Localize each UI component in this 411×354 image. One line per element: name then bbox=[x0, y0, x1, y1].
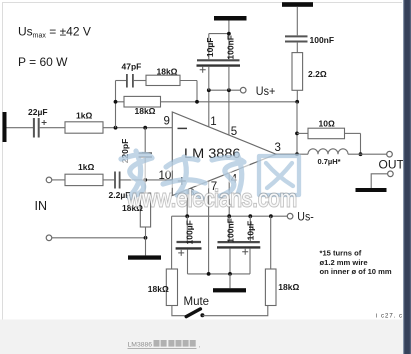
capacitor 100nF V+ lead bbox=[228, 21, 230, 60]
svg-text:1: 1 bbox=[210, 116, 216, 128]
watermark blue char 1 bbox=[121, 151, 154, 200]
svg-text:Usmax = ±42 V: Usmax = ±42 V bbox=[18, 25, 91, 40]
note coil winding bbox=[320, 248, 392, 276]
input terminal lower circle bbox=[46, 235, 52, 241]
wire feedback right column bbox=[196, 81, 198, 102]
resistor 18k mute right bbox=[265, 269, 299, 306]
svg-text:2.2Ω: 2.2Ω bbox=[308, 69, 327, 79]
node pin5 rail bbox=[227, 88, 231, 92]
resistor 10 ohm bbox=[297, 118, 361, 154]
capacitor 10uF V+ lead bbox=[208, 34, 210, 60]
capacitor V+ pair plates bbox=[197, 60, 241, 72]
svg-text:3: 3 bbox=[275, 142, 281, 154]
wire feedback left column bbox=[115, 81, 117, 128]
caption text bbox=[128, 340, 201, 349]
svg-text:on inner ø of 10 mm: on inner ø of 10 mm bbox=[320, 267, 392, 276]
wire junction to ground bbox=[145, 238, 147, 256]
node pin1 rail bbox=[207, 88, 211, 92]
watermark www text bbox=[126, 186, 297, 213]
capacitor 100nF zobel bbox=[285, 35, 334, 45]
terminal Us+ bbox=[240, 87, 246, 93]
svg-text:P = 60 W: P = 60 W bbox=[18, 55, 68, 69]
node pin8 rail bbox=[185, 214, 189, 218]
svg-text:10Ω: 10Ω bbox=[319, 118, 335, 128]
svg-text:10µF: 10µF bbox=[246, 221, 256, 241]
capacitor V+ lower leads bbox=[208, 67, 210, 90]
node 10ohm left bbox=[295, 132, 299, 136]
capacitor 47pF bbox=[122, 62, 142, 88]
node stem bus bbox=[228, 272, 232, 276]
wire R2.2 to node bbox=[296, 90, 298, 102]
watermark blue char 3 bbox=[212, 154, 246, 198]
svg-text:100nF: 100nF bbox=[225, 218, 235, 243]
wire to R1k lower bbox=[52, 179, 65, 181]
svg-text:Us-: Us- bbox=[297, 210, 314, 224]
wire 47p to R18k bbox=[134, 80, 146, 82]
terminal Us- bbox=[287, 213, 293, 219]
svg-text:22µF: 22µF bbox=[28, 107, 48, 117]
wire C2.2u to pin10 bbox=[121, 179, 173, 181]
svg-text:9: 9 bbox=[164, 116, 170, 128]
svg-text:100nF: 100nF bbox=[226, 35, 236, 60]
inductor 0.7uH bbox=[308, 149, 348, 166]
wire R1k to C2.2u bbox=[103, 179, 114, 181]
ground bar zobel bbox=[282, 2, 313, 7]
node zobel output bbox=[295, 100, 299, 104]
svg-text:Us+: Us+ bbox=[256, 84, 275, 98]
wire pin1 bbox=[208, 90, 210, 127]
wire V+ rail bbox=[209, 89, 241, 91]
node fb row2 right bbox=[195, 100, 199, 104]
wire feedback row1 left bbox=[116, 80, 127, 82]
resistor 18k feedback lower bbox=[124, 96, 161, 116]
terminal OUT bbox=[387, 151, 393, 157]
input terminal upper circle bbox=[46, 177, 52, 183]
svg-text:,: , bbox=[199, 342, 201, 349]
svg-text:18kΩ: 18kΩ bbox=[278, 282, 299, 292]
ground bar input bbox=[128, 255, 161, 259]
wire feedback row2 long to output bbox=[116, 101, 298, 103]
wire pin4 bbox=[228, 173, 230, 216]
watermark blue char 2 bbox=[163, 157, 207, 200]
svg-text:18kΩ: 18kΩ bbox=[148, 284, 169, 294]
wire mute bottom right bbox=[202, 306, 267, 316]
border top line bbox=[2, 2, 402, 4]
terminal OUT return bbox=[388, 171, 394, 177]
svg-text:100µF: 100µF bbox=[184, 220, 194, 244]
node pin7 bus bbox=[207, 272, 211, 276]
capacitor 220pF branch bbox=[120, 128, 152, 180]
node inductor right bbox=[359, 152, 363, 156]
wire C22u to R1k bbox=[40, 127, 65, 129]
wire 18k right to rail bbox=[270, 216, 272, 269]
node fb row2 left bbox=[114, 100, 118, 104]
svg-text:1kΩ: 1kΩ bbox=[76, 111, 92, 121]
ground bar V+ bbox=[214, 16, 247, 21]
wire pin7 bbox=[208, 181, 210, 274]
wire cap to R2.2 bbox=[296, 43, 298, 53]
node fb-left on pin9 wire bbox=[114, 126, 118, 130]
wire lower terminal to junction bbox=[52, 237, 146, 239]
node switch right bbox=[200, 313, 204, 317]
resistor 18k feedback top bbox=[146, 66, 180, 85]
wire pin8 bbox=[186, 190, 188, 217]
node pin4 rail bbox=[227, 214, 231, 218]
capacitor 100nF 10uF V- bbox=[217, 216, 260, 274]
wire output column bbox=[296, 102, 298, 154]
resistor 18k mute left bbox=[148, 269, 178, 306]
wire to OUT bbox=[348, 153, 387, 155]
node input ground junction bbox=[144, 236, 148, 240]
footer strip bbox=[0, 320, 404, 354]
svg-text:5: 5 bbox=[231, 126, 237, 138]
switch mute blade bbox=[186, 309, 200, 317]
resistor 1k input upper bbox=[65, 111, 103, 134]
svg-text:10µF: 10µF bbox=[205, 38, 215, 58]
node 18k rail bbox=[269, 214, 273, 218]
wire row1 right bbox=[180, 80, 197, 82]
svg-text:18kΩ: 18kΩ bbox=[135, 106, 156, 116]
svg-text:Mute: Mute bbox=[184, 296, 210, 308]
svg-text:i c27. cn: i c27. cn bbox=[376, 314, 407, 320]
resistor 1k input lower bbox=[65, 162, 103, 186]
wire ground bus bbox=[188, 273, 251, 275]
op-amp U1 LM3886 bbox=[172, 112, 276, 196]
wire opamp output bbox=[276, 153, 308, 155]
svg-text:*15 turns of: *15 turns of bbox=[320, 248, 362, 257]
resistor 18k bias bbox=[122, 180, 151, 238]
wire pin5 bbox=[228, 90, 230, 135]
wire R1k to pin9 bbox=[103, 127, 172, 129]
border left line bbox=[2, 3, 4, 320]
resistor 2.2 ohm bbox=[292, 53, 327, 91]
wire Us- rail bbox=[172, 215, 288, 217]
wire mute left drop bbox=[171, 216, 173, 269]
node pin10 junction bbox=[143, 178, 147, 182]
capacitor 100uF V- bbox=[176, 216, 202, 274]
watermark blue char 4 bbox=[259, 156, 301, 197]
svg-text:OUT: OUT bbox=[379, 158, 405, 172]
capacitor 2.2uF bbox=[109, 172, 131, 200]
svg-text:100nF: 100nF bbox=[310, 35, 335, 45]
wire input to C 22u bbox=[7, 127, 34, 129]
ground bar center bbox=[213, 288, 246, 292]
wire mute bottom left bbox=[172, 306, 186, 316]
svg-text:IN: IN bbox=[35, 199, 48, 213]
svg-text:18kΩ: 18kΩ bbox=[157, 66, 178, 76]
wire zobel top bbox=[296, 7, 298, 36]
svg-text:47pF: 47pF bbox=[122, 62, 142, 72]
svg-text:1kΩ: 1kΩ bbox=[78, 162, 94, 172]
node 10uF rail bbox=[248, 214, 252, 218]
wire OUT return bbox=[371, 174, 387, 188]
capacitor 22uF bbox=[28, 107, 48, 138]
svg-text:0.7µH*: 0.7µH* bbox=[318, 157, 341, 166]
svg-text:www.elecians.com: www.elecians.com bbox=[126, 186, 297, 213]
node 220p on pin9 wire bbox=[143, 126, 147, 130]
ground bar OUT bbox=[356, 188, 387, 192]
right blue bar bbox=[403, 0, 411, 354]
wire V+ cap jog bbox=[209, 33, 229, 35]
node inductor left bbox=[295, 152, 299, 156]
svg-text:LM3886: LM3886 bbox=[128, 341, 153, 348]
svg-text:ø1.2 mm wire: ø1.2 mm wire bbox=[320, 258, 368, 267]
wire bus to ground bbox=[229, 274, 231, 288]
node V+ cap jog bbox=[227, 32, 231, 36]
input terminal bar bbox=[3, 112, 7, 142]
